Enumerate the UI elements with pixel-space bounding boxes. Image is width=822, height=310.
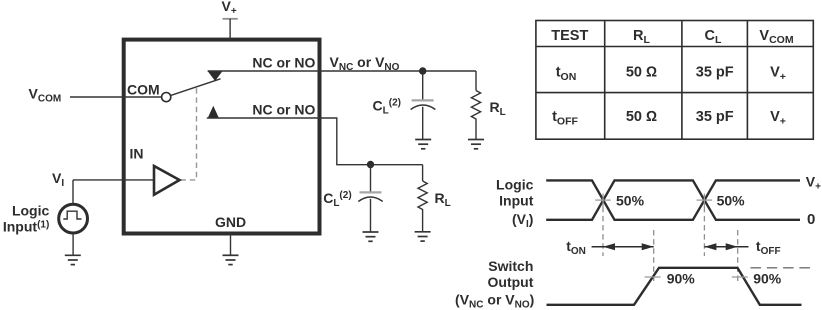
svg-text:TEST: TEST xyxy=(551,28,588,44)
svg-text:tON: tON xyxy=(556,64,577,83)
svg-text:RL: RL xyxy=(490,99,506,118)
ground CL lower xyxy=(363,232,379,241)
svg-text:Logic: Logic xyxy=(12,203,50,219)
dashed line from crossing 1 xyxy=(602,207,604,256)
svg-text:V+: V+ xyxy=(770,109,786,128)
svg-text:50%: 50% xyxy=(717,192,746,208)
svg-text:V+: V+ xyxy=(770,64,786,83)
dashed level line 90% xyxy=(751,267,814,269)
svg-text:VNC or VNO: VNC or VNO xyxy=(330,54,400,73)
svg-text:VCOM: VCOM xyxy=(29,86,62,105)
svg-text:Input: Input xyxy=(499,193,534,209)
ground RL lower xyxy=(415,232,431,241)
wire COM input xyxy=(70,96,162,98)
svg-text:50%: 50% xyxy=(616,192,645,208)
svg-text:Switch: Switch xyxy=(488,258,533,274)
ground CL upper xyxy=(415,140,431,149)
svg-text:(VNC or VNO): (VNC or VNO) xyxy=(455,292,534,310)
svg-text:CL(2): CL(2) xyxy=(323,190,351,209)
switch pole circle xyxy=(162,93,171,102)
svg-text:35 pF: 35 pF xyxy=(696,109,734,125)
svg-text:NC or NO: NC or NO xyxy=(252,55,315,71)
wire junction to CL upper xyxy=(422,71,424,100)
resistor RL upper xyxy=(471,71,480,140)
logic input waveform A xyxy=(546,180,800,219)
switch output waveform xyxy=(547,268,802,305)
svg-text:Output: Output xyxy=(488,274,534,290)
wire upper NC or NO output xyxy=(208,70,476,72)
svg-text:VCOM: VCOM xyxy=(759,28,793,46)
svg-text:tON: tON xyxy=(566,238,586,257)
svg-text:GND: GND xyxy=(215,214,246,230)
svg-text:35 pF: 35 pF xyxy=(696,64,734,80)
tick rise 90% xyxy=(645,276,661,278)
node lower output junction xyxy=(367,161,374,168)
svg-text:NC or NO: NC or NO xyxy=(252,102,315,118)
svg-text:V+: V+ xyxy=(806,173,821,192)
tick crossing 1 xyxy=(595,194,611,207)
dashed link switch-to-buffer xyxy=(181,88,197,180)
logic input waveform B xyxy=(546,180,800,219)
svg-text:0: 0 xyxy=(807,211,815,228)
ground RL upper xyxy=(468,140,484,149)
capacitor CL upper xyxy=(411,100,436,139)
svg-text:IN: IN xyxy=(130,146,144,162)
resistor RL lower xyxy=(418,165,427,232)
svg-text:COM: COM xyxy=(127,82,160,98)
svg-text:V+: V+ xyxy=(222,0,237,17)
V+ supply bar xyxy=(223,18,238,20)
capacitor CL lower xyxy=(358,165,382,233)
svg-text:50 Ω: 50 Ω xyxy=(626,64,657,80)
node upper output junction xyxy=(419,67,426,74)
source V1 logic input generator xyxy=(59,204,88,233)
svg-text:RL: RL xyxy=(633,28,650,46)
DUT box U1 xyxy=(124,40,320,234)
wire VI to source xyxy=(72,180,74,204)
ground logic source xyxy=(65,255,81,264)
svg-text:CL: CL xyxy=(705,28,722,46)
wire logic input to buffer xyxy=(73,179,154,181)
wire source to ground xyxy=(72,233,74,255)
ground GND pin xyxy=(223,255,239,264)
table frame xyxy=(536,21,813,140)
tick crossing 2 xyxy=(697,194,713,207)
svg-text:Input(1): Input(1) xyxy=(3,219,49,235)
dashed line from crossing 2 xyxy=(703,207,705,256)
svg-text:tOFF: tOFF xyxy=(552,109,578,128)
buffer amplifier xyxy=(154,166,180,195)
switch arm xyxy=(170,79,220,96)
contact triangle lower (NO) xyxy=(208,106,219,118)
svg-text:(VI): (VI) xyxy=(512,211,533,230)
arrow tOFF xyxy=(704,243,748,250)
svg-text:Logic: Logic xyxy=(496,177,534,193)
arrow tON xyxy=(592,243,654,250)
svg-text:CL(2): CL(2) xyxy=(373,98,401,117)
tick fall 90% xyxy=(732,276,748,278)
dashed line fall 90% xyxy=(737,230,739,283)
svg-text:tOFF: tOFF xyxy=(756,238,781,257)
svg-text:90%: 90% xyxy=(667,271,696,287)
contact triangle upper (NC) xyxy=(208,71,223,81)
pulse symbol xyxy=(63,211,81,219)
svg-text:RL: RL xyxy=(435,190,451,209)
svg-text:50 Ω: 50 Ω xyxy=(626,109,657,125)
wire GND pin xyxy=(230,234,232,256)
wire lower NC or NO output xyxy=(207,118,423,165)
dashed line rise 90% xyxy=(653,230,655,282)
svg-text:90%: 90% xyxy=(753,271,782,287)
svg-text:VI: VI xyxy=(52,170,64,189)
wire V+ pin xyxy=(229,19,231,40)
